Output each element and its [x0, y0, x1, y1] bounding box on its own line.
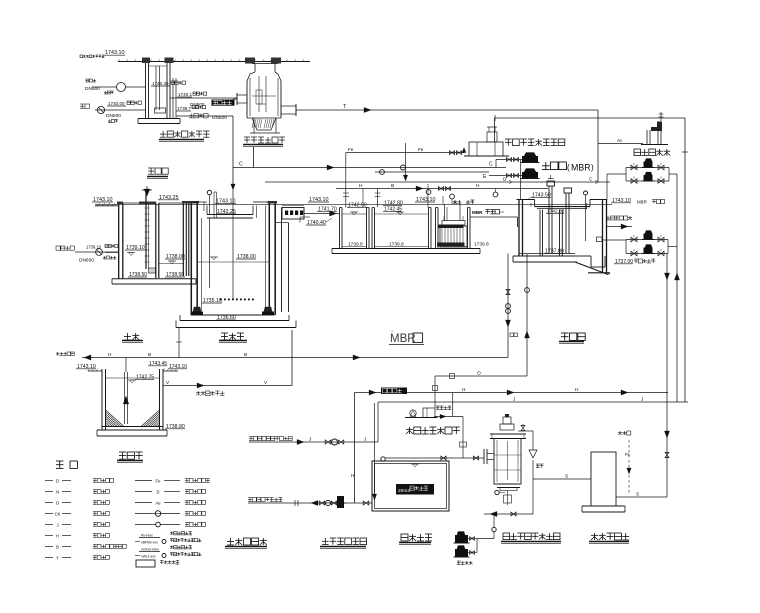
svg-text:H: H [108, 352, 112, 358]
svg-text:#x-Hxx: #x-Hxx [141, 534, 153, 538]
svg-text:DN600: DN600 [79, 258, 94, 264]
svg-text:1740.35: 1740.35 [152, 81, 169, 86]
svg-text:B: B [148, 352, 151, 358]
svg-text:1739.8: 1739.8 [348, 242, 363, 248]
svg-text:(: ( [567, 163, 570, 172]
svg-text:DN500: DN500 [106, 113, 121, 119]
svg-text:1739.8: 1739.8 [389, 242, 404, 248]
svg-text:CK: CK [55, 511, 61, 516]
svg-text:Fe: Fe [348, 147, 354, 152]
svg-text:H: H [462, 387, 466, 393]
svg-text:C: C [589, 177, 593, 183]
svg-text:Fe: Fe [418, 147, 424, 152]
svg-text:C: C [489, 162, 493, 168]
svg-text:S: S [636, 492, 639, 498]
svg-text:Y: Y [56, 555, 59, 560]
svg-text:J: J [56, 522, 58, 527]
svg-text:H: H [56, 533, 59, 538]
svg-text:Ae: Ae [155, 500, 161, 505]
svg-text:DN500: DN500 [212, 115, 227, 121]
svg-text:xxXxx-Hxx: xxXxx-Hxx [141, 548, 159, 552]
svg-text:N: N [56, 489, 59, 494]
svg-text:1739.7: 1739.7 [177, 106, 191, 111]
svg-text:MBR: MBR [571, 163, 591, 173]
svg-text:MBR: MBR [472, 210, 483, 215]
svg-text:20m3: 20m3 [398, 488, 410, 494]
svg-text:H: H [359, 183, 363, 189]
svg-text:DN500: DN500 [85, 86, 100, 92]
svg-text:H: H [575, 387, 579, 393]
svg-text:D: D [56, 478, 59, 483]
svg-text:1740.1: 1740.1 [178, 92, 192, 97]
svg-text:MBR: MBR [390, 333, 416, 345]
svg-text:Fe: Fe [625, 452, 631, 457]
svg-text:O: O [477, 371, 481, 377]
svg-text:D: D [156, 489, 159, 494]
svg-text:1739.8: 1739.8 [474, 242, 489, 248]
svg-text:Ac: Ac [617, 138, 623, 143]
svg-text:S: S [565, 474, 568, 480]
svg-text:1739.10: 1739.10 [86, 245, 102, 250]
svg-text:B: B [56, 544, 59, 549]
svg-text:D: D [503, 177, 507, 183]
svg-text:B: B [244, 352, 247, 358]
svg-text:B: B [391, 183, 394, 189]
svg-text:xBFMx-xxx: xBFMx-xxx [141, 541, 158, 545]
svg-text:Fe: Fe [156, 478, 162, 483]
svg-text:1740.00: 1740.00 [108, 101, 125, 106]
svg-text:C: C [239, 162, 243, 168]
svg-text:MBR: MBR [637, 200, 647, 205]
svg-text:H: H [476, 183, 480, 189]
svg-text:H: H [351, 473, 354, 478]
svg-text:): ) [591, 163, 594, 172]
svg-text:xWLx-xxx: xWLx-xxx [141, 555, 156, 559]
